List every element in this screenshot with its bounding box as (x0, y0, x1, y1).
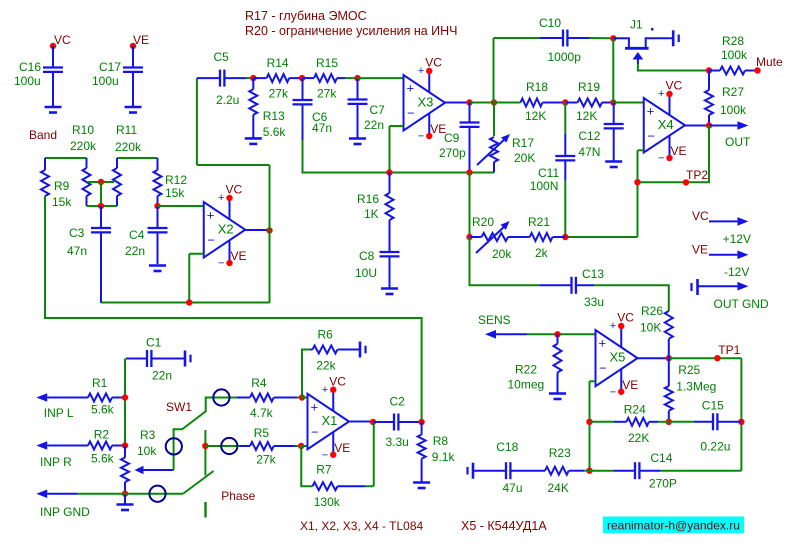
svg-text:R17: R17 (512, 136, 534, 150)
svg-text:22k: 22k (316, 359, 336, 373)
svg-text:100k: 100k (721, 48, 748, 62)
svg-text:VC: VC (425, 56, 442, 70)
svg-text:OUT: OUT (725, 135, 751, 149)
svg-text:22n: 22n (152, 369, 172, 383)
svg-text:3.3u: 3.3u (386, 435, 409, 449)
svg-text:OUT GND: OUT GND (714, 297, 769, 311)
svg-text:R1: R1 (92, 376, 108, 390)
svg-text:X5 - К544УД1А: X5 - К544УД1А (461, 519, 547, 533)
svg-text:100k: 100k (720, 103, 747, 117)
svg-text:VE: VE (692, 243, 708, 257)
svg-text:INP L: INP L (44, 406, 74, 420)
svg-text:C1: C1 (146, 336, 162, 350)
svg-text:R4: R4 (251, 376, 267, 390)
svg-text:R19: R19 (578, 80, 600, 94)
svg-text:10K: 10K (640, 321, 661, 335)
svg-text:15k: 15k (52, 195, 72, 209)
svg-text:270p: 270p (439, 146, 466, 160)
svg-text:22n: 22n (364, 118, 384, 132)
svg-text:VC: VC (617, 311, 634, 325)
svg-text:R5: R5 (254, 426, 270, 440)
svg-text:+: + (658, 88, 664, 100)
svg-text:47n: 47n (312, 121, 332, 135)
svg-text:R25: R25 (678, 363, 700, 377)
svg-text:100u: 100u (14, 74, 41, 88)
svg-text:C16: C16 (19, 60, 41, 74)
svg-text:1K: 1K (364, 207, 379, 221)
svg-text:12K: 12K (525, 109, 546, 123)
svg-text:10meg: 10meg (508, 378, 545, 392)
svg-text:−: − (418, 131, 424, 143)
svg-text:−: − (322, 449, 328, 461)
svg-text:R24: R24 (624, 403, 646, 417)
svg-text:+: + (218, 192, 224, 204)
svg-text:20k: 20k (492, 247, 512, 261)
svg-text:15k: 15k (165, 186, 185, 200)
svg-text:−: − (599, 361, 607, 376)
svg-text:VC: VC (54, 33, 71, 47)
svg-text:R27: R27 (722, 85, 744, 99)
svg-text:−: − (218, 258, 224, 270)
svg-text:INP R: INP R (40, 455, 72, 469)
svg-text:−: − (207, 233, 215, 248)
svg-text:C13: C13 (582, 267, 604, 281)
svg-text:X5: X5 (610, 350, 626, 365)
svg-text:+12V: +12V (723, 232, 751, 246)
svg-text:VE: VE (671, 144, 687, 158)
svg-text:C3: C3 (69, 226, 85, 240)
svg-text:+: + (407, 81, 415, 96)
svg-text:SW1: SW1 (166, 400, 192, 414)
svg-text:R14: R14 (267, 56, 289, 70)
svg-text:R17 - глубина ЭМОС: R17 - глубина ЭМОС (245, 9, 367, 23)
svg-text:1.3Meg: 1.3Meg (676, 380, 716, 394)
svg-text:C5: C5 (214, 50, 230, 64)
svg-text:+: + (599, 336, 607, 351)
svg-text:130k: 130k (314, 495, 341, 509)
svg-text:J1: J1 (630, 18, 643, 32)
svg-text:C11: C11 (538, 166, 559, 180)
svg-text:Band: Band (29, 128, 57, 142)
svg-text:VC: VC (692, 209, 709, 223)
svg-text:C17: C17 (99, 60, 121, 74)
svg-text:VE: VE (231, 249, 247, 263)
svg-text:47u: 47u (503, 481, 523, 495)
svg-text:X3: X3 (418, 94, 434, 109)
svg-text:R6: R6 (318, 328, 334, 342)
svg-text:R10: R10 (72, 123, 94, 137)
svg-text:−: − (407, 106, 415, 121)
svg-text:5.6k: 5.6k (263, 125, 287, 139)
svg-text:C7: C7 (370, 103, 386, 117)
svg-text:10k: 10k (137, 444, 157, 458)
svg-text:R13: R13 (263, 109, 285, 123)
svg-text:R16: R16 (357, 192, 379, 206)
svg-text:+: + (311, 399, 319, 414)
svg-text:C15: C15 (702, 399, 724, 413)
svg-text:R26: R26 (641, 304, 663, 318)
svg-text:0.22u: 0.22u (700, 440, 730, 454)
svg-text:R22: R22 (515, 363, 537, 377)
svg-text:R9: R9 (54, 179, 70, 193)
svg-text:TP2: TP2 (686, 168, 708, 182)
svg-text:5.6k: 5.6k (91, 403, 115, 417)
svg-text:R8: R8 (433, 434, 449, 448)
svg-text:INP GND: INP GND (40, 505, 90, 519)
svg-text:−: − (610, 386, 616, 398)
svg-text:R2: R2 (94, 428, 110, 442)
svg-text:100u: 100u (92, 74, 119, 88)
svg-text:X1, X2, X3, X4 - TL084: X1, X2, X3, X4 - TL084 (300, 519, 424, 533)
svg-text:R20: R20 (472, 215, 494, 229)
svg-text:VE: VE (334, 441, 350, 455)
svg-text:20K: 20K (514, 151, 535, 165)
svg-text:−: − (658, 153, 664, 165)
svg-text:10U: 10U (355, 266, 377, 280)
svg-text:5.6k: 5.6k (91, 452, 115, 466)
svg-text:4.7k: 4.7k (250, 406, 274, 420)
svg-text:reanimator-h@yandex.ru: reanimator-h@yandex.ru (607, 519, 740, 533)
svg-text:+: + (647, 104, 655, 119)
svg-text:X2: X2 (218, 221, 234, 236)
svg-text:Phase: Phase (221, 489, 255, 503)
svg-text:33u: 33u (584, 295, 604, 309)
svg-text:VC: VC (329, 374, 346, 388)
svg-text:R15: R15 (316, 56, 338, 70)
svg-text:220k: 220k (70, 139, 97, 153)
svg-text:C14: C14 (650, 451, 672, 465)
svg-text:C18: C18 (496, 440, 518, 454)
svg-text:R20 - ограничение усиления на: R20 - ограничение усиления на ИНЧ (245, 24, 458, 38)
svg-text:TP1: TP1 (718, 343, 740, 357)
svg-text:R23: R23 (549, 446, 571, 460)
svg-text:C8: C8 (359, 249, 375, 263)
svg-text:C10: C10 (539, 16, 561, 30)
svg-text:R21: R21 (528, 215, 550, 229)
svg-text:R12: R12 (165, 173, 187, 187)
svg-text:X1: X1 (322, 413, 338, 428)
svg-text:12K: 12K (576, 109, 597, 123)
svg-text:−: − (311, 424, 319, 439)
svg-text:C4: C4 (129, 228, 145, 242)
svg-text:47N: 47N (578, 145, 600, 159)
svg-text:2k: 2k (535, 246, 549, 260)
svg-text:R28: R28 (722, 34, 744, 48)
svg-text:24K: 24K (548, 481, 569, 495)
svg-text:2.2u: 2.2u (216, 93, 239, 107)
svg-text:220k: 220k (115, 140, 142, 154)
svg-text:47n: 47n (67, 244, 87, 258)
svg-text:C12: C12 (578, 129, 600, 143)
svg-text:R7: R7 (316, 463, 332, 477)
svg-text:−: − (647, 129, 655, 144)
svg-text:VE: VE (622, 378, 638, 392)
svg-text:9.1k: 9.1k (432, 450, 456, 464)
svg-text:C9: C9 (444, 131, 460, 145)
svg-text:R11: R11 (116, 123, 137, 137)
svg-text:1000p: 1000p (548, 50, 582, 64)
svg-text:+: + (207, 208, 215, 223)
svg-text:27k: 27k (256, 453, 276, 467)
svg-text:Mute: Mute (756, 55, 783, 69)
svg-text:100N: 100N (530, 179, 559, 193)
svg-text:+: + (610, 320, 616, 332)
svg-text:X4: X4 (658, 117, 674, 132)
svg-text:-12V: -12V (724, 265, 749, 279)
svg-text:R18: R18 (526, 80, 548, 94)
svg-text:+: + (418, 65, 424, 77)
svg-text:22K: 22K (628, 431, 649, 445)
svg-text:+: + (322, 384, 328, 396)
svg-text:C2: C2 (390, 395, 406, 409)
svg-text:22n: 22n (125, 244, 145, 258)
svg-text:VC: VC (666, 79, 683, 93)
svg-text:270P: 270P (649, 477, 677, 491)
svg-text:27k: 27k (269, 87, 289, 101)
svg-text:VC: VC (226, 183, 243, 197)
svg-text:SENS: SENS (478, 313, 511, 327)
svg-text:R3: R3 (140, 428, 156, 442)
svg-text:27k: 27k (317, 87, 337, 101)
